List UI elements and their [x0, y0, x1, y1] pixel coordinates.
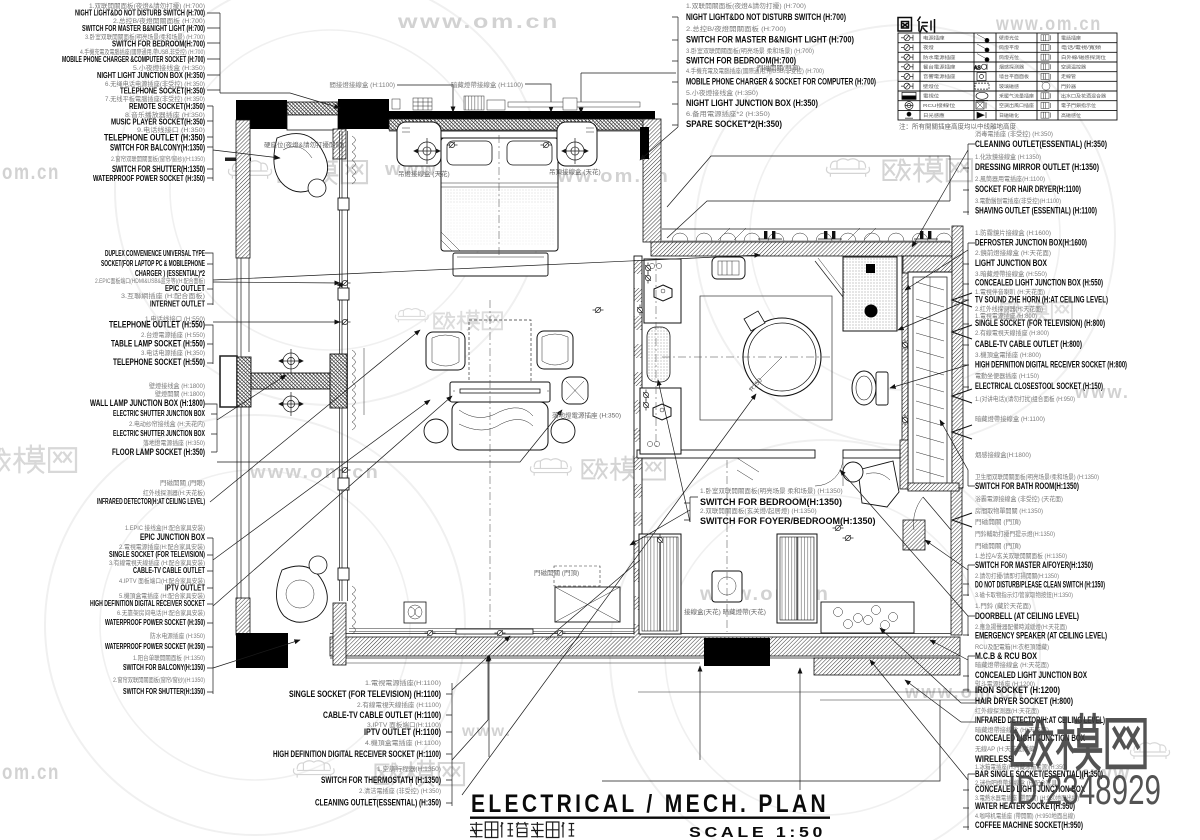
svg-text:SWITCH FOR SHUTTER(H:1350): SWITCH FOR SHUTTER(H:1350) — [123, 687, 205, 696]
svg-text:电源插座: 电源插座 — [923, 35, 945, 42]
svg-text:SOCKET(FOR LAPTOP PC & MOBILEP: SOCKET(FOR LAPTOP PC & MOBILEPHONE — [101, 259, 205, 268]
svg-text:注：所有開關插座高度均以中线離地高度: 注：所有開關插座高度均以中线離地高度 — [899, 122, 1017, 131]
svg-text:CONCEALED LIGHT JUNCTION BOX (: CONCEALED LIGHT JUNCTION BOX (H:550) — [975, 278, 1103, 288]
svg-text:红外線探測器(H:天花面): 红外線探測器(H:天花面) — [975, 706, 1039, 715]
svg-text:NIGHT LIGHT&DO NOT DISTURB SWI: NIGHT LIGHT&DO NOT DISTURB SWITCH (H:700… — [75, 9, 205, 18]
svg-text:ELECTRICAL CLOSESTOOL SOCKET (: ELECTRICAL CLOSESTOOL SOCKET (H:150) — [975, 381, 1103, 391]
svg-text:高磁感位: 高磁感位 — [1061, 112, 1081, 119]
svg-text:红外线探测器(H:天花板): 红外线探测器(H:天花板) — [143, 488, 205, 497]
svg-text:1.(对讲电话)(请勿打扰)组合面板 (H:950): 1.(对讲电话)(请勿打扰)组合面板 (H:950) — [975, 394, 1075, 403]
svg-text:TABLE LAMP SOCKET (H:550): TABLE LAMP SOCKET (H:550) — [111, 339, 205, 349]
light watermark sofa+text groups — [228, 161, 271, 179]
svg-text:5.小夜燈接线盒 (H:350): 5.小夜燈接线盒 (H:350) — [686, 88, 758, 97]
svg-text:M.C.B & RCU BOX: M.C.B & RCU BOX — [975, 651, 1037, 661]
svg-text:6.无靠架房间电话(H:配合家具安装): 6.无靠架房间电话(H:配合家具安装) — [117, 608, 205, 617]
svg-text:日光感應: 日光感應 — [923, 112, 945, 119]
svg-text:壁燈開關 (H:1800): 壁燈開關 (H:1800) — [155, 389, 205, 398]
furniture — [274, 122, 914, 634]
svg-text:4.機頂盒電插座 (H:1100): 4.機頂盒電插座 (H:1100) — [365, 738, 441, 747]
svg-text:SWITCH FOR MASTER B&NIGHT LIGH: SWITCH FOR MASTER B&NIGHT LIGHT (H:700) — [686, 35, 854, 45]
svg-text:落地燈電源插座 (H:350): 落地燈電源插座 (H:350) — [552, 411, 621, 420]
svg-text:出水口及花洒混合器: 出水口及花洒混合器 — [1061, 93, 1106, 100]
svg-text:CLEANING OUTLET(ESSENTIAL) (H:: CLEANING OUTLET(ESSENTIAL) (H:350) — [975, 139, 1107, 149]
svg-text:采暖气流量插座: 采暖气流量插座 — [999, 93, 1034, 100]
top-center labels — [686, 1, 876, 129]
svg-text:空調出風口插座: 空調出風口插座 — [999, 102, 1034, 109]
svg-text:NIGHT LIGHT JUNCTION BOX (H:35: NIGHT LIGHT JUNCTION BOX (H:350) — [686, 98, 818, 108]
svg-text:TV SOUND ZHE HORN (H:AT CEILIN: TV SOUND ZHE HORN (H:AT CEILING LEVEL) — [975, 295, 1108, 305]
svg-text:MUSIC PLAYER SOCKET(H:350): MUSIC PLAYER SOCKET(H:350) — [111, 118, 205, 127]
svg-text:筒燈平燈: 筒燈平燈 — [999, 44, 1019, 51]
svg-text:防水电源插座 (H:350): 防水电源插座 (H:350) — [150, 631, 205, 640]
svg-text:3.电话电源插座 (H:350): 3.电话电源插座 (H:350) — [141, 348, 205, 357]
svg-text:3.磁卡取物指示灯/管家取物按鈕(H:1350): 3.磁卡取物指示灯/管家取物按鈕(H:1350) — [975, 590, 1073, 599]
svg-text:MOBILE PHONE CHARGER &COMPUTER: MOBILE PHONE CHARGER &COMPUTER SOCKET (H… — [62, 55, 205, 64]
title — [470, 790, 830, 840]
svg-text:SWITCH FOR MASTER B&NIGHT LIGH: SWITCH FOR MASTER B&NIGHT LIGHT (H:700) — [82, 24, 205, 33]
svg-text:EMERGENCY SPEAKER (AT CEILING: EMERGENCY SPEAKER (AT CEILING LEVEL) — [975, 631, 1107, 641]
svg-text:WATERPROOF POWER SOCKET (H:350: WATERPROOF POWER SOCKET (H:350) — [93, 174, 205, 183]
svg-text:2.双联開關面板(玄关燈/起居燈) (H:1350): 2.双联開關面板(玄关燈/起居燈) (H:1350) — [700, 506, 817, 515]
svg-text:防水電源插座: 防水電源插座 — [923, 54, 956, 61]
svg-text:3.機頂盒電插座 (H:800): 3.機頂盒電插座 (H:800) — [975, 350, 1041, 359]
svg-text:AS: AS — [974, 65, 981, 71]
svg-text:SWITCH FOR BEDROOM(H:700): SWITCH FOR BEDROOM(H:700) — [686, 56, 796, 66]
svg-text:HAIR DRYER SOCKET (H:800): HAIR DRYER SOCKET (H:800) — [975, 696, 1073, 706]
svg-text:DO NOT DISTURB/PLEASE CLEAN SW: DO NOT DISTURB/PLEASE CLEAN SWITCH (H:13… — [975, 580, 1105, 590]
svg-text:烟感探测器: 烟感探测器 — [999, 64, 1024, 71]
svg-text:SOCKET FOR HAIR DRYER(H:1100): SOCKET FOR HAIR DRYER(H:1100) — [975, 184, 1081, 194]
svg-text:1.門鈴 (藏於天花面): 1.門鈴 (藏於天花面) — [975, 601, 1031, 610]
svg-text:白外線/磁感探測位: 白外線/磁感探測位 — [1061, 54, 1106, 61]
svg-text:1.EPIC 接线盒(H:配合家具安装): 1.EPIC 接线盒(H:配合家具安装) — [125, 523, 205, 532]
left labels — [62, 1, 205, 696]
svg-text:壁燈位: 壁燈位 — [923, 83, 940, 90]
svg-text:浴霸電源接線盒 (非受控) (天花面): 浴霸電源接線盒 (非受控) (天花面) — [975, 494, 1063, 503]
svg-text:ELECTRIC SHUTTER JUNCTION BOX: ELECTRIC SHUTTER JUNCTION BOX — [113, 409, 205, 418]
svg-text:餐台電源插座: 餐台電源插座 — [923, 64, 956, 71]
svg-text:COFFEE MACHINE SOCKET(H:950): COFFEE MACHINE SOCKET(H:950) — [975, 820, 1083, 830]
svg-text:門磁開關 (門頂): 門磁開關 (門頂) — [975, 541, 1021, 550]
svg-text:暗藏燈帶接線盒 (H:天花面): 暗藏燈帶接線盒 (H:天花面) — [975, 660, 1049, 669]
svg-text:IPTV OUTLET (H:1100): IPTV OUTLET (H:1100) — [364, 727, 441, 737]
svg-text:SINGLE SOCKET (FOR TELEVISION): SINGLE SOCKET (FOR TELEVISION) (H:800) — [975, 318, 1105, 328]
svg-text:壁燈接线盒 (H:1800): 壁燈接线盒 (H:1800) — [149, 381, 205, 390]
svg-text:卫生間双联開關面板(明亮场景/柔和场景) (H:1350): 卫生間双联開關面板(明亮场景/柔和场景) (H:1350) — [975, 472, 1099, 481]
svg-text:SINGLE SOCKET (FOR TELEVISION): SINGLE SOCKET (FOR TELEVISION) — [109, 550, 205, 559]
svg-text:墙台平面面板: 墙台平面面板 — [999, 73, 1029, 80]
svg-text:CABLE-TV CABLE OUTLET (H:1100): CABLE-TV CABLE OUTLET (H:1100) — [323, 710, 441, 720]
svg-text:電子門鎖指示位: 電子門鎖指示位 — [1061, 102, 1096, 109]
svg-text:暗藏燈帶接線盒 (H:1100): 暗藏燈帶接線盒 (H:1100) — [975, 414, 1045, 423]
svg-text:接線盒(天花) 暗藏燈帶(天花): 接線盒(天花) 暗藏燈帶(天花) — [684, 607, 766, 616]
svg-text:SWITCH FOR BATH ROOM(H:1350): SWITCH FOR BATH ROOM(H:1350) — [975, 481, 1079, 491]
svg-text:SHAVING OUTLET (ESSENTIAL) (H:: SHAVING OUTLET (ESSENTIAL) (H:1100) — [975, 206, 1097, 216]
svg-text:2.風筒器用電插座(H:1100): 2.風筒器用電插座(H:1100) — [975, 174, 1045, 183]
svg-text:烟感接線盒(H:1800): 烟感接線盒(H:1800) — [975, 450, 1031, 459]
svg-text:FLOOR LAMP SOCKET (H:350): FLOOR LAMP SOCKET (H:350) — [112, 447, 205, 457]
svg-text:1.总控A/玄关双联開關面板 (H:1350): 1.总控A/玄关双联開關面板 (H:1350) — [975, 551, 1067, 560]
svg-text:HIGH DEFINITION DIGITAL RECEIV: HIGH DEFINITION DIGITAL RECEIVER SOCKET … — [273, 749, 441, 759]
svg-text:1.電視電源插座(H:1100): 1.電視電源插座(H:1100) — [365, 678, 441, 687]
svg-text:門磁開關 (門頂): 門磁開關 (門頂) — [534, 568, 579, 577]
svg-text:EPIC JUNCTION BOX: EPIC JUNCTION BOX — [140, 532, 205, 542]
svg-text:SWITCH FOR MASTER A/FOYER(H:13: SWITCH FOR MASTER A/FOYER(H:1350) — [975, 560, 1093, 570]
svg-text:落地燈電源插座 (H:350): 落地燈電源插座 (H:350) — [143, 438, 205, 447]
svg-text:www.om.cn: www.om.cn — [995, 14, 1102, 35]
svg-text:吊燈接線盒 (天花): 吊燈接線盒 (天花) — [398, 169, 450, 178]
svg-text:ELECTRICAL / MECH. PLAN: ELECTRICAL / MECH. PLAN — [471, 790, 829, 818]
svg-text:2.有線電視天線插座 (H:800): 2.有線電視天線插座 (H:800) — [975, 328, 1049, 337]
svg-text:CABLE-TV CABLE OUTLET (H:800): CABLE-TV CABLE OUTLET (H:800) — [975, 339, 1082, 349]
svg-text:2.窗帘双联開關面板(窗帘/窗纱)(H:1350): 2.窗帘双联開關面板(窗帘/窗纱)(H:1350) — [113, 675, 205, 684]
svg-text:TELEPHONE SOCKET(H:350): TELEPHONE SOCKET(H:350) — [120, 87, 205, 96]
svg-text:DOORBELL (AT CEILING LEVEL): DOORBELL (AT CEILING LEVEL) — [975, 611, 1079, 621]
walls — [220, 99, 985, 700]
svg-text:空調温控器: 空調温控器 — [1061, 64, 1086, 71]
svg-text:CABLE-TV CABLE OUTLET: CABLE-TV CABLE OUTLET — [133, 566, 205, 575]
svg-text:WATERPROOF POWER SOCKET (H:350: WATERPROOF POWER SOCKET (H:350) — [105, 618, 205, 627]
dark watermark — [1008, 715, 1161, 813]
svg-text:SCALE 1:50: SCALE 1:50 — [689, 825, 826, 840]
svg-text:4.手機充電及電腦插座(國際通用,帶USB,非受控) (H:: 4.手機充電及電腦插座(國際通用,帶USB,非受控) (H:700) — [686, 66, 824, 75]
svg-text:WATERPROOF POWER SOCKET (H:350: WATERPROOF POWER SOCKET (H:350) — [105, 642, 205, 651]
svg-text:SWITCH FOR BALCONY(H:1350): SWITCH FOR BALCONY(H:1350) — [123, 663, 205, 672]
svg-text:吊頂接線盒 (天花): 吊頂接線盒 (天花) — [549, 167, 601, 176]
svg-text:2.有線電視天線插座 (H:1100): 2.有線電視天線插座 (H:1100) — [357, 700, 441, 709]
svg-text:電話插座: 電話插座 — [1061, 35, 1081, 42]
svg-text:CHARGER ) (ESSENTIAL)*2: CHARGER ) (ESSENTIAL)*2 — [135, 269, 205, 278]
svg-text:www.om.cn: www.om.cn — [249, 462, 380, 482]
svg-text:RCU及配電箱(H:衣柜頂隱藏): RCU及配電箱(H:衣柜頂隱藏) — [975, 642, 1049, 651]
right labels — [975, 129, 1127, 830]
svg-text:NIGHT LIGHT JUNCTION BOX (H:35: NIGHT LIGHT JUNCTION BOX (H:350) — [97, 71, 205, 80]
svg-text:電動坐便器插座 (H:150): 電動坐便器插座 (H:150) — [975, 371, 1039, 380]
svg-text:2.清洁電插座 (非受控) (H:350): 2.清洁電插座 (非受控) (H:350) — [359, 786, 441, 795]
svg-text:門磁開關 (門頂): 門磁開關 (門頂) — [975, 517, 1021, 526]
svg-text:TELEPHONE OUTLET (H:550): TELEPHONE OUTLET (H:550) — [109, 320, 205, 330]
svg-text:2.鏡前燈接線盒 (H:天花面): 2.鏡前燈接線盒 (H:天花面) — [975, 248, 1051, 257]
svg-text:SINGLE SOCKET (FOR TELEVISION): SINGLE SOCKET (FOR TELEVISION) (H:1100) — [289, 689, 441, 699]
svg-text:SWITCH FOR THERMOSTATH (H:1350: SWITCH FOR THERMOSTATH (H:1350) — [321, 775, 441, 785]
svg-text:SWITCH FOR SHUTTER(H:1350): SWITCH FOR SHUTTER(H:1350) — [112, 164, 205, 174]
svg-text:1.卧室双联開關面板(明亮场景 柔和场景) (H:1350): 1.卧室双联開關面板(明亮场景 柔和场景) (H:1350) — [700, 486, 843, 495]
svg-text:HIGH DEFINITION DIGITAL RECEIV: HIGH DEFINITION DIGITAL RECEIVER SOCKET … — [975, 360, 1127, 370]
svg-text:2.电动纱帘接线盒 (H:天花内): 2.电动纱帘接线盒 (H:天花内) — [129, 419, 205, 428]
svg-text:1.双联開關面板(夜燈&請勿打擾) (H:700): 1.双联開關面板(夜燈&請勿打擾) (H:700) — [686, 1, 806, 10]
svg-text:1.空調行程器(H:1350): 1.空調行程器(H:1350) — [377, 764, 441, 773]
svg-text:SWITCH FOR BEDROOM(H:1350): SWITCH FOR BEDROOM(H:1350) — [700, 497, 842, 507]
svg-text:om.cn: om.cn — [2, 161, 60, 184]
svg-text:om.cn: om.cn — [2, 761, 60, 784]
svg-text:RCU接線位: RCU接線位 — [923, 102, 956, 109]
svg-text:壁燈光位: 壁燈光位 — [999, 35, 1019, 42]
svg-text:HIGH DEFINITION DIGITAL RECEIV: HIGH DEFINITION DIGITAL RECEIVER SOCKET — [90, 599, 205, 608]
svg-text:6.备用電源插座*2 (H:350): 6.备用電源插座*2 (H:350) — [686, 109, 770, 118]
svg-text:INFRARED DETECTOR(H:AT CEILING: INFRARED DETECTOR(H:AT CEILING LEVEL) — [97, 497, 205, 506]
svg-text:WALL LAMP JUNCTION BOX (H:1800: WALL LAMP JUNCTION BOX (H:1800) — [90, 398, 205, 408]
svg-text:IPTV OUTLET: IPTV OUTLET — [165, 584, 205, 593]
svg-text:2.窗帘双联開關面板(窗帘/窗纱)(H:1350): 2.窗帘双联開關面板(窗帘/窗纱)(H:1350) — [111, 154, 205, 163]
svg-text:REMOTE SOCKET(H:350): REMOTE SOCKET(H:350) — [129, 102, 205, 111]
svg-text:SWITCH FOR BALCONY(H:1350): SWITCH FOR BALCONY(H:1350) — [110, 143, 205, 153]
svg-text:LIGHT JUNCTION BOX: LIGHT JUNCTION BOX — [975, 258, 1047, 268]
svg-text:www.om.cn: www.om.cn — [397, 12, 560, 33]
svg-text:筒燈光位: 筒燈光位 — [999, 54, 1019, 61]
legend — [898, 17, 935, 33]
svg-text:电话/電視/寬頻: 电话/電視/寬頻 — [1061, 44, 1102, 51]
svg-text:房間取物單開關 (H:1350): 房間取物單開關 (H:1350) — [975, 506, 1043, 515]
svg-text:硬座位(夜燈&請勿打擾開關): 硬座位(夜燈&請勿打擾開關) — [264, 140, 344, 149]
svg-text:門磁開關(門頂): 門磁開關(門頂) — [757, 63, 800, 72]
svg-text:NIGHT LIGHT&DO NOT DISTURB SWI: NIGHT LIGHT&DO NOT DISTURB SWITCH (H:700… — [686, 12, 846, 22]
svg-text:電視位: 電視位 — [923, 93, 940, 100]
svg-text:TELEPHONE OUTLET (H:350): TELEPHONE OUTLET (H:350) — [104, 133, 205, 143]
svg-text:門磁開關 (門眼): 門磁開關 (門眼) — [160, 478, 205, 487]
svg-text:門鈴輔助打擾門提示燈(H:1350): 門鈴輔助打擾門提示燈(H:1350) — [975, 529, 1055, 538]
svg-text:1.阳台单联開關面板 (H:1350): 1.阳台单联開關面板 (H:1350) — [133, 653, 205, 662]
svg-text:走線管: 走線管 — [1061, 73, 1076, 80]
svg-text:TELEPHONE SOCKET (H:550): TELEPHONE SOCKET (H:550) — [113, 357, 205, 367]
svg-text:INTERNET OUTLET: INTERNET OUTLET — [150, 300, 205, 309]
svg-text:1.防霧鏡片接線盒 (H:1600): 1.防霧鏡片接線盒 (H:1600) — [975, 228, 1051, 237]
svg-text:SWITCH FOR FOYER/BEDROOM(H:135: SWITCH FOR FOYER/BEDROOM(H:1350) — [700, 516, 876, 526]
leaders — [205, 13, 975, 830]
svg-text:DUPLEX CONVENIENCE UNIVERSAL T: DUPLEX CONVENIENCE UNIVERSAL TYPE — [105, 249, 205, 258]
svg-text:2.总控B/夜燈開關面板 (H:700): 2.总控B/夜燈開關面板 (H:700) — [686, 24, 786, 33]
svg-text:間接燈接線盒 (H:1100): 間接燈接線盒 (H:1100) — [329, 80, 395, 89]
bathroom — [490, 135, 897, 632]
svg-text:玻璃磁感: 玻璃磁感 — [999, 83, 1019, 90]
svg-text:音響電源插座: 音響電源插座 — [923, 73, 956, 80]
svg-text:夜燈: 夜燈 — [923, 44, 934, 51]
svg-text:CONCEALED LIGHT JUNCTION BOX: CONCEALED LIGHT JUNCTION BOX — [975, 670, 1087, 680]
svg-text:DRESSING MIRROR OUTLET (H:1350: DRESSING MIRROR OUTLET (H:1350) — [975, 162, 1099, 172]
svg-text:IRON SOCKET (H:1200): IRON SOCKET (H:1200) — [975, 685, 1060, 695]
svg-text:日磁磁化: 日磁磁化 — [999, 112, 1019, 119]
svg-text:2.红外线探测器(H:天花面): 2.红外线探测器(H:天花面) — [975, 304, 1043, 313]
svg-text:SWITCH FOR BEDROOM(H:700): SWITCH FOR BEDROOM(H:700) — [112, 40, 205, 49]
svg-text:CLEANING OUTLET(ESSENTIAL) (H:: CLEANING OUTLET(ESSENTIAL) (H:350) — [315, 798, 441, 808]
svg-text:1.化妝鏡接線盒 (H:1350): 1.化妝鏡接線盒 (H:1350) — [975, 152, 1041, 161]
svg-text:暗藏燈帶接線盒 (H:1100): 暗藏燈帶接線盒 (H:1100) — [451, 80, 523, 89]
svg-text:DEFROSTER JUNCTION BOX(H:1600): DEFROSTER JUNCTION BOX(H:1600) — [975, 238, 1087, 248]
bottom-left labels — [273, 678, 441, 808]
svg-text:MOBILE PHONE CHARGER & SOCKET: MOBILE PHONE CHARGER & SOCKET FOR COMPUT… — [686, 77, 876, 87]
svg-text:3.卧室双联開關面板(明亮场景 柔和场景) (H:700): 3.卧室双联開關面板(明亮场景 柔和场景) (H:700) — [686, 46, 814, 55]
svg-text:3.電動鬚刨電插座(非受控)(H:1100): 3.電動鬚刨電插座(非受控)(H:1100) — [975, 196, 1061, 205]
svg-text:ELECTRIC SHUTTER JUNCTION BOX: ELECTRIC SHUTTER JUNCTION BOX — [113, 429, 205, 438]
svg-text:EPIC OUTLET: EPIC OUTLET — [165, 284, 205, 293]
svg-text:WIRELESS: WIRELESS — [975, 754, 1013, 764]
svg-text:ID:2348929: ID:2348929 — [1008, 766, 1161, 813]
svg-text:SPARE SOCKET*2(H:350): SPARE SOCKET*2(H:350) — [686, 119, 782, 129]
svg-text:門鈴器: 門鈴器 — [1061, 83, 1076, 90]
